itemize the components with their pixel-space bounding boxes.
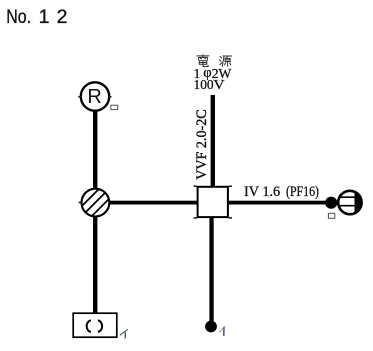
svg-text:IV 1.6: IV 1.6 <box>244 184 280 200</box>
switch ロ (black dot right) <box>325 197 337 209</box>
title No.12 <box>6 6 67 28</box>
kanji 源 <box>220 56 232 66</box>
lamp receptacle R <box>81 82 109 110</box>
svg-text:1: 1 <box>39 6 50 28</box>
box corner overshoot ticks <box>194 186 232 219</box>
wire outlet box down to switch イ <box>209 218 213 324</box>
tick right of R circle <box>108 96 111 98</box>
switch label イ (bottom centre) <box>219 326 225 336</box>
ceiling rose, square type (rect with parentheses) <box>73 313 117 337</box>
wall outlet symbol (circle, right part filled, two bars) <box>337 188 365 217</box>
VVF joint box (hatched circle) <box>82 189 110 217</box>
svg-text:2: 2 <box>57 6 68 28</box>
wire joint box to outlet box <box>109 201 198 205</box>
svg-text:(PF16): (PF16) <box>286 184 319 200</box>
conduit label IV 1.6 (PF16) <box>244 184 319 200</box>
svg-text:100V: 100V <box>194 77 226 92</box>
wire R to joint box <box>93 111 97 189</box>
switch イ (black dot) <box>205 321 217 333</box>
kanji 電 <box>197 55 209 67</box>
switch label ロ (at R) <box>111 105 118 109</box>
power feed wire (vertical, VVF 2.0-2C) <box>211 95 215 186</box>
fixture label イ (at ceiling rose) <box>120 329 128 338</box>
tick left of joint box <box>79 202 82 204</box>
conduit wire outlet box to right (IV 1.6 PF16) <box>229 201 327 205</box>
wire joint box down to ceiling rose <box>93 216 97 313</box>
svg-text:R: R <box>87 86 101 108</box>
switch label ロ (right) <box>328 213 334 218</box>
power source label 電源 1φ2W 100V <box>197 55 232 67</box>
outlet box (square) <box>198 187 228 217</box>
svg-text:VVF 2.0-2C: VVF 2.0-2C <box>194 109 210 180</box>
tick left of R circle <box>78 96 81 98</box>
svg-text:No.: No. <box>6 6 31 28</box>
